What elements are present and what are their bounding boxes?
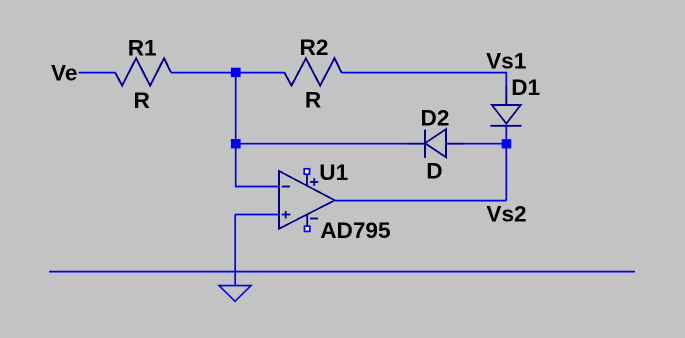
wire node A to node B	[235, 73, 237, 144]
wire Ve to R1	[79, 72, 116, 74]
svg-text:U1: U1	[319, 160, 348, 185]
diode D1	[490, 105, 521, 126]
svg-text:R: R	[305, 88, 321, 113]
diode D2	[425, 129, 446, 158]
diode D2 anode pin stub	[445, 143, 463, 145]
ground rail wire	[49, 271, 635, 273]
svg-text:R: R	[134, 88, 150, 113]
svg-text:R2: R2	[300, 35, 329, 60]
resistor R1	[115, 58, 171, 85]
junction node C	[502, 139, 512, 148]
pin V- terminal square of U1	[305, 226, 310, 231]
wire R2 to Vs1 corner	[342, 72, 507, 74]
wire node C to D2 anode pin	[463, 143, 506, 145]
wire non-inverting input down to ground	[234, 215, 236, 286]
pin V+ stub of U1	[306, 175, 308, 186]
svg-text:D1: D1	[511, 75, 540, 100]
svg-text:D: D	[426, 159, 442, 184]
diode D1 anode pin stub	[505, 85, 507, 104]
svg-text:D2: D2	[421, 106, 450, 131]
svg-text:Ve: Ve	[51, 61, 77, 86]
junction node A	[231, 68, 241, 77]
wire node B down to inverting input row	[235, 144, 237, 187]
ground	[219, 286, 251, 302]
svg-text:R1: R1	[128, 35, 157, 60]
resistor R2	[284, 58, 341, 85]
wire op-amp non-inverting input left	[235, 214, 278, 216]
pin V+ terminal square of U1	[304, 169, 309, 174]
wire to op-amp inverting input	[235, 186, 279, 188]
wire op-amp output to Vs2 corner	[335, 200, 507, 202]
op-amp U1	[279, 171, 335, 229]
wire Vs1 corner down to D1 pin	[505, 72, 507, 86]
wire D1 cathode to node C and down to output corner	[505, 126, 507, 201]
svg-text:Vs2: Vs2	[486, 202, 526, 227]
wire R1 to node A	[171, 72, 285, 74]
junction node B	[231, 139, 241, 148]
svg-text:Vs1: Vs1	[486, 49, 526, 74]
pin V- stub of U1	[306, 214, 308, 226]
diode D2 cathode pin stub	[407, 143, 425, 145]
minus sign at V- pin	[310, 218, 318, 220]
wire D2 cathode to node B	[236, 143, 407, 145]
plus sign at V+ pin	[310, 178, 318, 186]
svg-text:AD795: AD795	[320, 218, 390, 243]
